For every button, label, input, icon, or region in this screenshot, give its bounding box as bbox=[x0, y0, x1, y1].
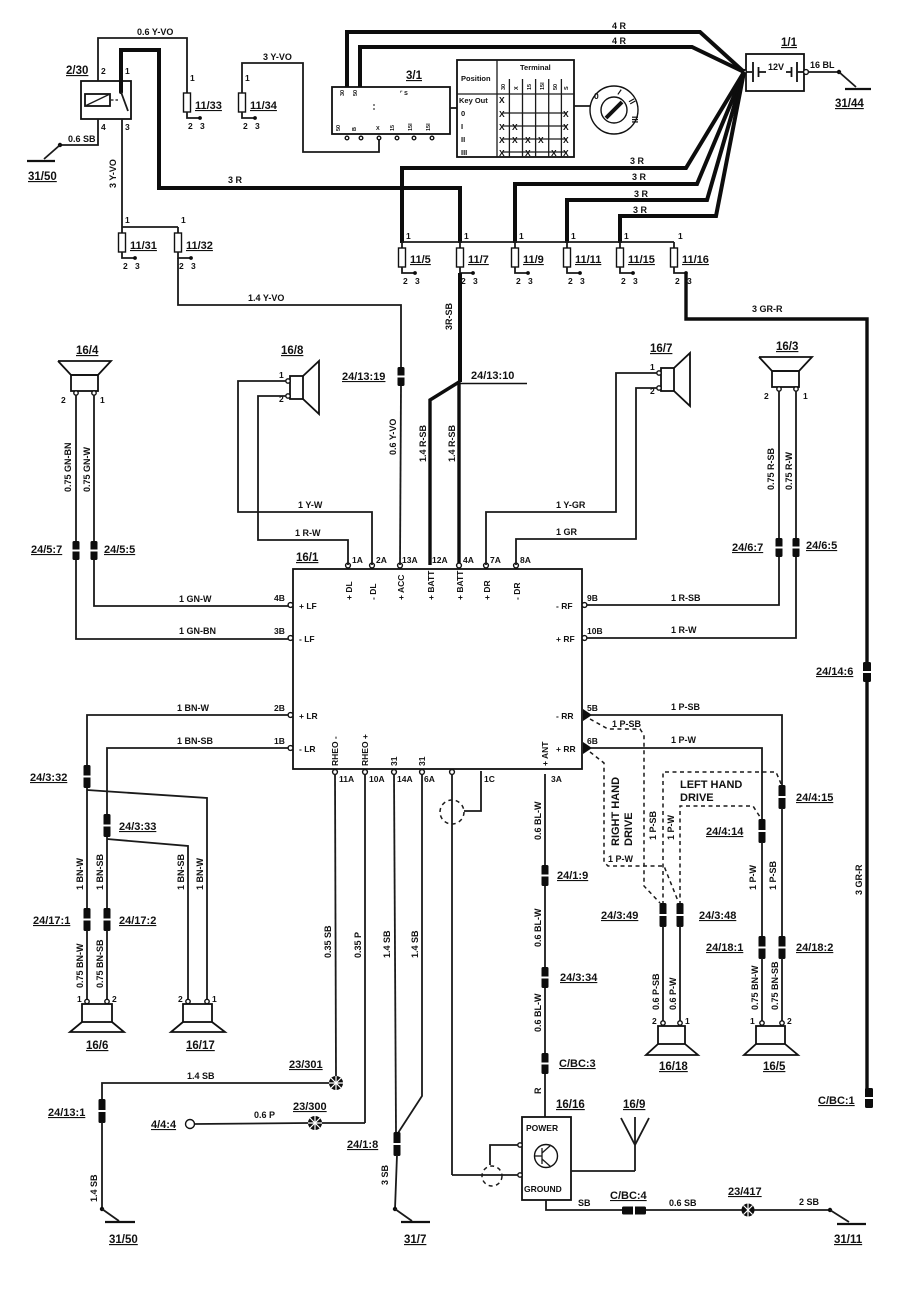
svg-text:2: 2 bbox=[101, 66, 106, 76]
svg-text:1 P-SB: 1 P-SB bbox=[612, 719, 642, 729]
svg-text:12V: 12V bbox=[768, 62, 784, 72]
wire 1 GN-W to radio 4B bbox=[94, 560, 288, 606]
svg-text:- RR: - RR bbox=[556, 711, 573, 721]
wire 0.75 BN-W 24/18:1 to speaker 16/5 pin1 bbox=[750, 958, 762, 1022]
wire 1.4 Y-VO fuse 11/32 to connector 24/13:19 bbox=[178, 258, 401, 368]
svg-text:24/3:33: 24/3:33 bbox=[119, 821, 156, 833]
svg-text:14A: 14A bbox=[397, 774, 413, 784]
fuse 11/32 bbox=[175, 215, 213, 271]
wire 0.75 BN-SB 24/17:2 to speaker 16/6 pin2 bbox=[95, 930, 107, 1001]
antenna amplifier 16/16 bbox=[522, 1099, 585, 1200]
svg-text:13A: 13A bbox=[402, 555, 418, 565]
svg-text:1.4 Y-VO: 1.4 Y-VO bbox=[248, 293, 284, 303]
svg-text:0.6 SB: 0.6 SB bbox=[68, 134, 96, 144]
radio bottom pins bbox=[330, 734, 562, 784]
svg-text:16/3: 16/3 bbox=[776, 341, 798, 353]
svg-text:0.75 BN-W: 0.75 BN-W bbox=[75, 943, 85, 988]
svg-text:+ BATT: + BATT bbox=[455, 570, 465, 600]
label left hand drive with dashed outline bbox=[648, 772, 782, 905]
connector 24/1:8 bbox=[347, 1132, 401, 1156]
wire 1 P-W radio 6B to connector 24/4:14 bbox=[590, 735, 762, 820]
wire 4 R ignition 50 to battery bbox=[360, 36, 744, 87]
svg-text:+ LR: + LR bbox=[299, 711, 318, 721]
svg-text:2B: 2B bbox=[274, 703, 285, 713]
wire 0.35 SB radio 11A to joint 23/301 bbox=[323, 774, 336, 1077]
wire 0.6 Y-VO connector 24/13:19 to radio 13A bbox=[388, 385, 401, 565]
wire 0.75 BN-W 24/17:1 to speaker 16/6 pin1 bbox=[75, 930, 87, 1001]
wire 3 SB 24/1:8 to ground 31/7 bbox=[380, 1155, 412, 1221]
svg-text:0.6 BL-W: 0.6 BL-W bbox=[533, 993, 543, 1032]
svg-text:11/5: 11/5 bbox=[410, 254, 431, 266]
optional connection dashed circle at radio bbox=[440, 800, 464, 824]
svg-text:2: 2 bbox=[787, 1016, 792, 1026]
svg-text:3 R: 3 R bbox=[632, 172, 647, 182]
svg-text:15I: 15I bbox=[426, 123, 432, 131]
svg-text:15I: 15I bbox=[408, 123, 414, 131]
svg-text:POWER: POWER bbox=[526, 1123, 558, 1133]
svg-text:1: 1 bbox=[181, 215, 186, 225]
svg-text:16/8: 16/8 bbox=[281, 345, 304, 357]
svg-text:11/33: 11/33 bbox=[195, 100, 222, 112]
svg-text:24/4:14: 24/4:14 bbox=[706, 826, 744, 838]
wire ignition to position table bbox=[450, 107, 457, 109]
svg-text:1: 1 bbox=[212, 994, 217, 1004]
speaker 16/6 left rear bbox=[70, 994, 124, 1052]
svg-text:- LR: - LR bbox=[299, 744, 316, 754]
wire 1 R-W speaker 16/8 pin2 to radio 1A bbox=[258, 396, 348, 565]
svg-text:X: X bbox=[499, 122, 505, 132]
svg-text:24/6:7: 24/6:7 bbox=[732, 542, 763, 554]
svg-text:4 R: 4 R bbox=[612, 36, 627, 46]
ground 31/50 bottom bbox=[105, 1222, 138, 1246]
wire 1 Y-W speaker 16/8 pin1 to radio 2A bbox=[238, 381, 372, 565]
svg-text:1: 1 bbox=[100, 395, 105, 405]
svg-text:3 R: 3 R bbox=[633, 205, 648, 215]
wire 3 Y-VO fuse 11/34 to ignition switch X terminal bbox=[242, 52, 379, 152]
svg-text:1.4 R-SB: 1.4 R-SB bbox=[447, 424, 457, 462]
wire 0.6 SB relay pin4 to ground bbox=[44, 119, 98, 159]
svg-text:3: 3 bbox=[125, 122, 130, 132]
svg-text:1: 1 bbox=[406, 231, 411, 241]
svg-text:+ RR: + RR bbox=[556, 744, 576, 754]
connector 24/6:7 bbox=[732, 538, 783, 557]
svg-text:15: 15 bbox=[390, 125, 396, 131]
connector 24/3:34 bbox=[542, 967, 599, 988]
svg-text:3 Y-VO: 3 Y-VO bbox=[108, 159, 118, 188]
svg-text:- DR: - DR bbox=[512, 583, 522, 600]
svg-text:23/417: 23/417 bbox=[728, 1186, 762, 1198]
svg-text:- LF: - LF bbox=[299, 634, 315, 644]
wire 1.4 SB 24/13:1 down bbox=[89, 1122, 119, 1221]
svg-text:24/14:6: 24/14:6 bbox=[816, 666, 853, 678]
connector 24/6:5 bbox=[793, 538, 838, 557]
svg-text:2 SB: 2 SB bbox=[799, 1197, 820, 1207]
fuse 11/9 bbox=[512, 231, 544, 286]
wire 0.75 R-SB speaker 16/3 pin2 down bbox=[766, 391, 779, 539]
svg-text:II: II bbox=[461, 135, 465, 144]
svg-text:RHEO -: RHEO - bbox=[330, 736, 340, 766]
wire 1 BN-SB 24/3:33 to 24/17:2 bbox=[95, 837, 107, 909]
svg-text:3: 3 bbox=[528, 276, 533, 286]
svg-text:X: X bbox=[512, 135, 518, 145]
svg-text:+ DL: + DL bbox=[344, 581, 354, 600]
svg-text:1 BN-W: 1 BN-W bbox=[195, 857, 205, 890]
svg-text:4 R: 4 R bbox=[612, 21, 627, 31]
svg-text:0.75 BN-SB: 0.75 BN-SB bbox=[770, 961, 780, 1010]
wire 1 BN-W 24/3:32 to 24/17:1 bbox=[75, 788, 87, 909]
svg-text:24/4:15: 24/4:15 bbox=[796, 792, 833, 804]
wire table to key switch bbox=[574, 105, 591, 107]
svg-text:50: 50 bbox=[336, 125, 342, 131]
svg-text:50: 50 bbox=[553, 84, 559, 90]
wire radio aux pin down to 16/16 bbox=[451, 774, 453, 1175]
svg-text:Position: Position bbox=[461, 74, 491, 83]
svg-text:1 BN-SB: 1 BN-SB bbox=[177, 736, 214, 746]
svg-text:31/50: 31/50 bbox=[28, 171, 57, 183]
ignition switch bottom pins bbox=[345, 136, 434, 140]
svg-text:11/31: 11/31 bbox=[130, 240, 157, 252]
svg-text:31/11: 31/11 bbox=[834, 1234, 863, 1246]
connector 24/5:5 bbox=[91, 541, 136, 560]
svg-text:X: X bbox=[563, 135, 569, 145]
svg-text:3B: 3B bbox=[274, 626, 285, 636]
svg-text:Terminal: Terminal bbox=[520, 63, 551, 72]
speaker 16/18 right shelf bbox=[646, 1016, 698, 1073]
svg-text:+ BATT: + BATT bbox=[426, 570, 436, 600]
svg-text:X: X bbox=[499, 148, 505, 158]
wire 3 GR-R fuse 11/16 down right edge bbox=[686, 274, 867, 1090]
svg-text:0.75 R-W: 0.75 R-W bbox=[784, 451, 794, 490]
wire 0.75 GN-BN speaker 16/4 pin2 down bbox=[63, 395, 76, 542]
svg-text:X: X bbox=[512, 122, 518, 132]
wire 0.75 R-W speaker 16/3 pin1 down bbox=[784, 391, 796, 539]
ground 31/11 bbox=[828, 1208, 866, 1246]
svg-text:10B: 10B bbox=[587, 626, 603, 636]
svg-text:16/18: 16/18 bbox=[659, 1061, 688, 1073]
ignition switch 3/1 bbox=[332, 70, 450, 134]
battery 1/1 bbox=[742, 37, 809, 91]
ignition switch internal terminal labels bbox=[336, 90, 432, 132]
svg-text:0.75 GN-BN: 0.75 GN-BN bbox=[63, 442, 73, 492]
fuse 11/15 bbox=[617, 231, 655, 286]
transistor inside 16/16 bbox=[535, 1145, 558, 1168]
svg-text:X: X bbox=[499, 109, 505, 119]
speaker 16/17 left shelf bbox=[171, 994, 225, 1052]
svg-text:16/7: 16/7 bbox=[650, 343, 672, 355]
svg-text:Key Out: Key Out bbox=[459, 96, 488, 105]
svg-text:3: 3 bbox=[135, 261, 140, 271]
svg-text:3 GR-R: 3 GR-R bbox=[752, 304, 783, 314]
svg-text:8A: 8A bbox=[520, 555, 531, 565]
wire 1 R-SB to radio 9B bbox=[587, 557, 779, 605]
svg-text:3: 3 bbox=[200, 121, 205, 131]
svg-text:C/BC:1: C/BC:1 bbox=[818, 1095, 855, 1107]
svg-text:1.4 R-SB: 1.4 R-SB bbox=[418, 424, 428, 462]
svg-text:1 P-W: 1 P-W bbox=[666, 814, 676, 840]
svg-text:5B: 5B bbox=[587, 703, 598, 713]
svg-text:2: 2 bbox=[178, 994, 183, 1004]
svg-text:RIGHT HAND: RIGHT HAND bbox=[610, 777, 622, 846]
svg-text:0.6 SB: 0.6 SB bbox=[669, 1198, 697, 1208]
svg-text:2: 2 bbox=[403, 276, 408, 286]
svg-text:X: X bbox=[563, 109, 569, 119]
svg-text:1: 1 bbox=[519, 231, 524, 241]
svg-text:24/3:32: 24/3:32 bbox=[30, 772, 67, 784]
svg-text:0.6 BL-W: 0.6 BL-W bbox=[533, 801, 543, 840]
svg-text:0.35 P: 0.35 P bbox=[353, 932, 363, 958]
svg-text:1 P-SB: 1 P-SB bbox=[768, 860, 778, 890]
table X marks row III bbox=[499, 148, 569, 158]
svg-text:2/30: 2/30 bbox=[66, 65, 88, 77]
radio unit 16/1 bbox=[293, 552, 582, 769]
svg-text:16/6: 16/6 bbox=[86, 1040, 108, 1052]
svg-text:3: 3 bbox=[687, 276, 692, 286]
svg-text:1 R-W: 1 R-W bbox=[295, 528, 321, 538]
svg-text:16 BL: 16 BL bbox=[810, 60, 835, 70]
svg-text:1.4 SB: 1.4 SB bbox=[89, 1174, 99, 1202]
svg-text:24/3:49: 24/3:49 bbox=[601, 910, 638, 922]
wire 1.4 R-SB to radio 4A bbox=[447, 382, 459, 565]
wire 1 BN-W branch 24/3:32 to speaker 16/17 pin1 bbox=[87, 790, 207, 1001]
svg-text:2: 2 bbox=[764, 391, 769, 401]
svg-text:1: 1 bbox=[678, 231, 683, 241]
svg-text:10A: 10A bbox=[369, 774, 385, 784]
wire 1 P-SB radio 5B to connector 24/4:15 bbox=[590, 702, 782, 786]
svg-text:SB: SB bbox=[578, 1198, 591, 1208]
svg-text:11/16: 11/16 bbox=[682, 254, 709, 266]
wire 1 Y-GR radio 7A to speaker 16/7 pin1 bbox=[486, 373, 657, 565]
svg-text:2: 2 bbox=[123, 261, 128, 271]
svg-text:I: I bbox=[461, 122, 463, 131]
connector C/BC:3 bbox=[542, 1053, 596, 1074]
svg-text:15: 15 bbox=[527, 84, 533, 90]
wire 0.6 Y-VO relay pin2 to fuse 11/33 bbox=[98, 27, 187, 93]
svg-text:1: 1 bbox=[125, 215, 130, 225]
relay switch contact bbox=[119, 81, 128, 111]
svg-text:2: 2 bbox=[652, 1016, 657, 1026]
wire 1 P-W 24/4:14 down to 24/18:1 bbox=[748, 842, 762, 937]
svg-text:2: 2 bbox=[179, 261, 184, 271]
svg-text:11/7: 11/7 bbox=[468, 254, 489, 266]
svg-text:24/5:7: 24/5:7 bbox=[31, 544, 62, 556]
radio right pins bbox=[556, 593, 603, 754]
optional connection dashed circle at 16/16 bbox=[482, 1166, 502, 1186]
wire 3 Y-VO relay pin3 down to fuse 11/31 bbox=[108, 119, 122, 233]
speaker 16/8 left dash bbox=[279, 345, 319, 414]
svg-text:1: 1 bbox=[77, 994, 82, 1004]
relay coil bbox=[85, 94, 119, 106]
wire 3 R fuse 11/11 to battery bbox=[567, 72, 744, 243]
svg-text:16/4: 16/4 bbox=[76, 345, 99, 357]
svg-text:3 R: 3 R bbox=[634, 189, 649, 199]
radio left pins bbox=[274, 593, 318, 754]
svg-text:24/18:2: 24/18:2 bbox=[796, 942, 833, 954]
svg-text:III: III bbox=[461, 148, 467, 157]
wire dashed 1 P-SB 5B to 24/3:49 right hand drive bbox=[590, 719, 660, 903]
svg-text:S: S bbox=[564, 86, 570, 90]
svg-text:31/7: 31/7 bbox=[404, 1234, 426, 1246]
speaker 16/7 right dash bbox=[650, 343, 690, 406]
wire 0.6 BL-W radio 3A down to 16/16 bbox=[533, 774, 545, 1117]
fuse 11/11 bbox=[564, 231, 602, 286]
svg-text:RHEO +: RHEO + bbox=[360, 734, 370, 766]
svg-text:+ ANT: + ANT bbox=[540, 741, 550, 766]
svg-text:2: 2 bbox=[112, 994, 117, 1004]
connector 24/18:1 bbox=[706, 936, 766, 959]
svg-text:31/44: 31/44 bbox=[835, 98, 864, 110]
svg-text:1 R-W: 1 R-W bbox=[671, 625, 697, 635]
svg-text:1 GN-W: 1 GN-W bbox=[179, 594, 212, 604]
fuse 11/33 bbox=[184, 73, 222, 131]
wire 1.4 SB radio 6A to connector 24/1:8 bbox=[398, 774, 422, 1133]
svg-text:X: X bbox=[499, 135, 505, 145]
fuse 11/16 bbox=[671, 231, 709, 286]
connector 24/13:19 bbox=[342, 367, 405, 386]
radio top pins bbox=[344, 555, 531, 600]
connector 24/18:2 bbox=[779, 936, 834, 959]
svg-text:GROUND: GROUND bbox=[524, 1184, 562, 1194]
svg-text:1 P-SB: 1 P-SB bbox=[671, 702, 701, 712]
svg-text:1 GN-BN: 1 GN-BN bbox=[179, 626, 216, 636]
svg-text:X: X bbox=[376, 126, 380, 132]
svg-text:1: 1 bbox=[125, 66, 130, 76]
ground 31/7 bbox=[401, 1222, 430, 1246]
svg-text:3: 3 bbox=[473, 276, 478, 286]
svg-text:1 BN-SB: 1 BN-SB bbox=[95, 853, 105, 890]
svg-text:+ ACC: + ACC bbox=[396, 575, 406, 600]
svg-text:X: X bbox=[563, 148, 569, 158]
svg-text:1 P-W: 1 P-W bbox=[608, 854, 634, 864]
svg-text:16/1: 16/1 bbox=[296, 552, 319, 564]
svg-text:24/17:2: 24/17:2 bbox=[119, 915, 156, 927]
svg-text:24/3:48: 24/3:48 bbox=[699, 910, 736, 922]
svg-text:1: 1 bbox=[279, 370, 284, 380]
svg-text:16/9: 16/9 bbox=[623, 1099, 645, 1111]
joint 23/417 bbox=[728, 1186, 820, 1217]
wire 0.6 P-W 24/3:48 to speaker 16/18 pin1 bbox=[668, 926, 680, 1022]
svg-text:24/5:5: 24/5:5 bbox=[104, 544, 135, 556]
key switch symbol bbox=[590, 86, 640, 134]
wire 1.4 SB 23/301 to ground 31/50 bbox=[102, 1071, 329, 1099]
svg-text:2: 2 bbox=[61, 395, 66, 405]
svg-text:24/3:34: 24/3:34 bbox=[560, 972, 598, 984]
wire 3 R fuse 11/15 to battery bbox=[620, 72, 744, 243]
fuse 11/34 bbox=[239, 73, 278, 131]
connector 24/3:33 bbox=[104, 814, 157, 837]
svg-text:24/18:1: 24/18:1 bbox=[706, 942, 743, 954]
wire 3 R fuse 11/9 to battery bbox=[515, 72, 744, 243]
svg-text:1C: 1C bbox=[484, 774, 495, 784]
fuse 11/7 bbox=[457, 231, 489, 286]
svg-text:1: 1 bbox=[750, 1016, 755, 1026]
svg-text:+ DR: + DR bbox=[482, 580, 492, 600]
svg-text:3 R: 3 R bbox=[630, 156, 645, 166]
svg-text:- DL: - DL bbox=[368, 583, 378, 600]
connector C/BC:1 wire end bbox=[818, 1088, 873, 1108]
svg-text:X: X bbox=[499, 95, 505, 105]
svg-text:16/16: 16/16 bbox=[556, 1099, 585, 1111]
wire dashed 1 P-W 6B to 24/3:48 right hand drive bbox=[590, 752, 678, 901]
svg-text:3R-SB: 3R-SB bbox=[444, 302, 454, 330]
svg-text:3: 3 bbox=[580, 276, 585, 286]
wire 1 GR radio 8A to speaker 16/7 pin2 bbox=[516, 388, 657, 565]
wire bus linking fuse pins 1 bbox=[402, 241, 674, 243]
svg-text:24/13:19: 24/13:19 bbox=[342, 371, 385, 383]
svg-text:12A: 12A bbox=[432, 555, 448, 565]
svg-text:3A: 3A bbox=[551, 774, 562, 784]
svg-text:3: 3 bbox=[191, 261, 196, 271]
wire 0.75 BN-SB 24/18:2 to speaker 16/5 pin2 bbox=[770, 958, 782, 1022]
wire thick 4R feed from relay pin1 down to 3R run bbox=[121, 50, 159, 188]
wire 1 BN-SB radio 1B to connector 24/3:33 bbox=[107, 736, 288, 815]
svg-text:1 BN-SB: 1 BN-SB bbox=[176, 853, 186, 890]
svg-text:+ RF: + RF bbox=[556, 634, 575, 644]
svg-text:11/15: 11/15 bbox=[628, 254, 655, 266]
svg-text:1: 1 bbox=[685, 1016, 690, 1026]
svg-text:1.4 SB: 1.4 SB bbox=[410, 930, 420, 958]
svg-text:1: 1 bbox=[245, 73, 250, 83]
speaker 16/3 right front bbox=[759, 341, 812, 401]
connector 24/17:2 bbox=[104, 908, 157, 931]
svg-text:1: 1 bbox=[571, 231, 576, 241]
svg-text:X: X bbox=[538, 135, 544, 145]
wire 0.6 P 4/4:4 to joint 23/300 bbox=[195, 1110, 308, 1124]
terminal 4/4:4 bbox=[151, 1119, 195, 1131]
node 24/13:10 batt wire split bbox=[460, 370, 527, 384]
svg-text:1/1: 1/1 bbox=[781, 37, 798, 49]
svg-text:3 Y-VO: 3 Y-VO bbox=[263, 52, 292, 62]
svg-text:3: 3 bbox=[255, 121, 260, 131]
svg-text:0.35 SB: 0.35 SB bbox=[323, 925, 333, 958]
antenna 16/9 bbox=[571, 1099, 649, 1171]
svg-text:LEFT HAND: LEFT HAND bbox=[680, 779, 742, 791]
svg-text:3 SB: 3 SB bbox=[380, 1164, 390, 1185]
svg-text:1: 1 bbox=[464, 231, 469, 241]
svg-text:0.75 BN-W: 0.75 BN-W bbox=[750, 965, 760, 1010]
speaker 16/4 left front bbox=[58, 345, 111, 405]
connector 24/3:48 bbox=[677, 903, 737, 927]
connector 24/14:6 bbox=[816, 662, 871, 682]
svg-text:0.75 R-SB: 0.75 R-SB bbox=[766, 447, 776, 490]
wire 0.75 GN-W speaker 16/4 pin1 down bbox=[82, 395, 94, 542]
relay 2/30 bbox=[66, 65, 131, 132]
svg-text:X: X bbox=[525, 135, 531, 145]
svg-text:0.6 P-SB: 0.6 P-SB bbox=[651, 973, 661, 1010]
svg-text:X: X bbox=[563, 122, 569, 132]
svg-text:3/1: 3/1 bbox=[406, 70, 423, 82]
svg-text:3 R: 3 R bbox=[228, 175, 243, 185]
svg-text:+ LF: + LF bbox=[299, 601, 317, 611]
connector C/BC:4 bbox=[610, 1190, 697, 1215]
svg-text:X: X bbox=[551, 148, 557, 158]
svg-text:⌜ S: ⌜ S bbox=[400, 90, 408, 97]
table X marks row I bbox=[499, 122, 569, 132]
label right hand drive bbox=[610, 777, 635, 846]
wire SB ground from 16/16 bbox=[546, 1198, 830, 1210]
fuse 11/5 bbox=[399, 231, 431, 286]
wire 1 GN-BN to radio 3B bbox=[76, 560, 288, 639]
table X marks row II bbox=[499, 135, 569, 145]
svg-text:24/1:8: 24/1:8 bbox=[347, 1139, 378, 1151]
ground 31/50 top left bbox=[27, 161, 57, 183]
svg-text:X: X bbox=[514, 86, 520, 90]
svg-text:9B: 9B bbox=[587, 593, 598, 603]
table X marks row 0 bbox=[499, 109, 569, 119]
svg-text:1B: 1B bbox=[274, 736, 285, 746]
svg-text:24/13:1: 24/13:1 bbox=[48, 1107, 85, 1119]
wire 3 R fuse 11/5 to battery bbox=[402, 72, 744, 243]
svg-text:4: 4 bbox=[101, 122, 106, 132]
